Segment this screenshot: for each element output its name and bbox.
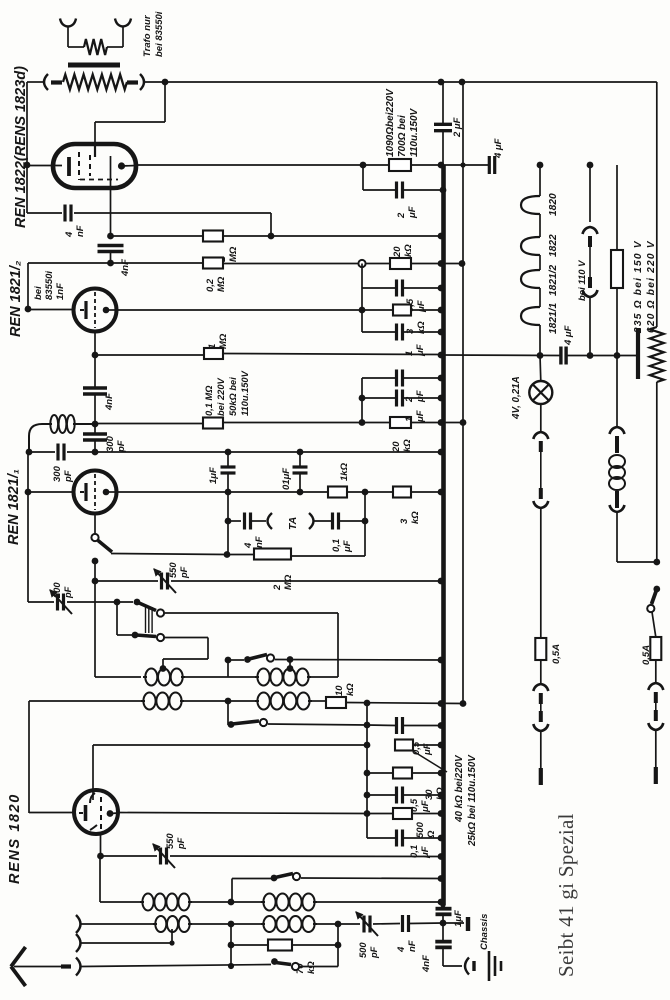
- tube REN1822 envelope: [53, 144, 136, 188]
- node: [460, 700, 467, 707]
- capacitor 1uF: [395, 324, 398, 341]
- wire: [122, 165, 137, 168]
- svg-text:2: 2: [272, 584, 283, 591]
- node: [438, 770, 445, 777]
- svg-text:700Ω bei: 700Ω bei: [397, 115, 408, 157]
- wire: [223, 422, 441, 424]
- svg-text:2: 2: [396, 212, 407, 219]
- switch S2 lever: [136, 635, 156, 637]
- svg-text:μF: μF: [415, 410, 426, 423]
- wire: [232, 878, 271, 880]
- ground jack arc: [465, 958, 469, 975]
- node: [438, 449, 445, 456]
- wire: [117, 602, 132, 635]
- label 20 k: [392, 244, 414, 258]
- loudspeaker magnet bar: [68, 63, 120, 68]
- node: [438, 853, 445, 860]
- node: [438, 722, 445, 729]
- node: [614, 352, 621, 359]
- wire: [100, 833, 102, 856]
- capacitor 0.1uF b: [395, 830, 398, 847]
- wire: [403, 794, 441, 796]
- wire: [190, 923, 261, 925]
- switch S2b pivot: [244, 656, 251, 663]
- svg-text:μF: μF: [407, 206, 418, 219]
- resistor 1 Mohm: [203, 231, 223, 242]
- capacitor 4uF top: [488, 156, 491, 174]
- svg-text:2 μF: 2 μF: [452, 117, 463, 138]
- node: [587, 162, 594, 169]
- svg-text:MΩ: MΩ: [283, 574, 294, 590]
- node: [438, 307, 445, 314]
- svg-text:1nF: 1nF: [55, 283, 66, 300]
- wire: [82, 929, 173, 943]
- wire: [403, 397, 441, 399]
- loudspeaker voice coil (zigzag): [84, 39, 107, 55]
- label 3 k: [405, 321, 427, 334]
- svg-text:200: 200: [52, 582, 62, 599]
- bias rail: [462, 82, 464, 704]
- wire: [227, 701, 229, 725]
- loudspeaker jack hook right: [115, 19, 131, 27]
- tube REN1822 anode lead: [94, 144, 96, 157]
- svg-text:1090Ωbei220V: 1090Ωbei220V: [385, 88, 396, 157]
- svg-text:110u.150V: 110u.150V: [240, 370, 250, 416]
- switch mains contact: [647, 605, 654, 612]
- wire: [403, 331, 441, 333]
- terminal: [358, 260, 365, 267]
- svg-text:REN 1822(RENS 1823d): REN 1822(RENS 1823d): [13, 66, 29, 228]
- wire grid line y423: [95, 423, 203, 425]
- node: [335, 921, 342, 928]
- capacitor 4nF coupling: [83, 386, 107, 389]
- svg-text:μF: μF: [415, 390, 426, 403]
- label 1 M: [217, 246, 239, 262]
- wire: [337, 924, 339, 945]
- svg-text:40 kΩ bei220V: 40 kΩ bei220V: [454, 754, 465, 823]
- wire: [367, 794, 396, 796]
- svg-text:4: 4: [64, 231, 75, 238]
- svg-text:pF: pF: [116, 440, 127, 453]
- wire: [223, 263, 358, 265]
- node: [460, 419, 467, 426]
- node: [335, 942, 342, 949]
- choke coil: [609, 455, 625, 490]
- node: [438, 835, 445, 842]
- label 4 nF: [64, 225, 86, 238]
- label 550pF b: [165, 833, 186, 850]
- label 0,5 uF: [405, 298, 427, 313]
- svg-text:kΩ: kΩ: [402, 439, 413, 452]
- speaker plug connector: [533, 432, 548, 439]
- svg-text:20: 20: [392, 246, 403, 258]
- node: [92, 352, 99, 359]
- wire: [373, 923, 400, 926]
- node: [438, 875, 445, 882]
- wire: [95, 580, 158, 582]
- tube RENS1820 anode dot: [107, 810, 114, 817]
- wire: [228, 520, 241, 522]
- capacitor 2uF b: [395, 182, 398, 199]
- svg-text:500: 500: [358, 942, 368, 958]
- ground jack dash: [472, 961, 475, 971]
- label 1090 multi: [385, 88, 420, 157]
- capacitor 550pF b: [159, 848, 162, 865]
- svg-text:25kΩ bei 110u.150V: 25kΩ bei 110u.150V: [467, 754, 478, 847]
- node: [653, 559, 660, 566]
- jack antenna 2: [76, 934, 81, 952]
- tube REN1821/1 anode dot: [103, 489, 110, 496]
- node: [364, 770, 371, 777]
- svg-text:μF: μF: [420, 800, 431, 813]
- wire to mains section: [462, 81, 657, 83]
- coil L3a: [142, 894, 153, 911]
- wire: [656, 82, 658, 327]
- node: [438, 352, 445, 359]
- node: [438, 700, 445, 707]
- mains plug connector left: [533, 684, 548, 691]
- wire: [347, 491, 393, 493]
- wire: [165, 612, 338, 614]
- switch S2 pivot: [132, 632, 139, 639]
- wire: [346, 703, 463, 704]
- node: [25, 489, 32, 496]
- wire: [411, 263, 462, 265]
- switch S2b contact: [267, 654, 274, 661]
- coil L3b: [263, 894, 275, 911]
- wire: [82, 965, 272, 967]
- svg-text:pF: pF: [179, 566, 189, 579]
- wire: [409, 922, 443, 925]
- svg-text:500: 500: [415, 821, 426, 838]
- resistor 500ohm: [393, 808, 412, 819]
- wire: [301, 877, 441, 880]
- switch S4 lever: [275, 874, 293, 878]
- node: [359, 307, 366, 314]
- wire: [413, 744, 441, 746]
- switch S1 pivot: [134, 599, 141, 606]
- svg-text:4 μF: 4 μF: [563, 325, 574, 346]
- tube REN1822 inner grid dashed: [78, 152, 80, 180]
- svg-text:MΩ: MΩ: [218, 333, 229, 349]
- wire: [540, 508, 542, 638]
- node: [362, 518, 369, 525]
- svg-text:μF: μF: [342, 540, 353, 553]
- tube REN1822 inner screen dashed: [80, 155, 118, 180]
- capacitor 0.1uF dec: [293, 452, 308, 492]
- coil L2a: [143, 693, 155, 710]
- node: [225, 489, 232, 496]
- svg-text:REN 1821/₁: REN 1821/₁: [6, 469, 22, 545]
- wire: [617, 512, 657, 562]
- svg-text:nF: nF: [407, 940, 418, 952]
- switch S3 pivot: [228, 721, 235, 728]
- svg-text:REN 1821/₂: REN 1821/₂: [8, 260, 24, 337]
- trimmer arrow: [154, 569, 176, 593]
- wire: [443, 947, 462, 966]
- wire: [616, 288, 618, 356]
- wire: [655, 730, 657, 767]
- svg-text:kΩ: kΩ: [410, 511, 421, 524]
- capacitor 0.5uF b: [395, 717, 398, 734]
- svg-text:bei 220V: bei 220V: [216, 377, 226, 416]
- node: [440, 187, 447, 194]
- resistor 30k: [393, 768, 412, 779]
- svg-text:4: 4: [243, 542, 254, 549]
- wire: [362, 331, 396, 333]
- svg-text:4: 4: [396, 946, 407, 953]
- wire: [94, 514, 96, 534]
- node: [364, 810, 371, 817]
- svg-text:0,1: 0,1: [331, 539, 342, 552]
- label Trafo nur bei 83550i: [142, 11, 165, 57]
- fuse 0.5A right: [650, 637, 661, 660]
- svg-text:110u.150V: 110u.150V: [409, 107, 420, 157]
- svg-text:235 Ω bei 150 V: 235 Ω bei 150 V: [633, 240, 644, 334]
- wire: [95, 82, 165, 144]
- tube REN1821/1 grid dashed: [94, 474, 96, 510]
- resistor 10k: [326, 697, 346, 708]
- node: [26, 449, 33, 456]
- node: [362, 489, 369, 496]
- trimmer arrow b: [153, 844, 175, 868]
- node: [438, 489, 445, 496]
- wire: [29, 700, 141, 702]
- label 4nF TA: [243, 536, 265, 549]
- capacitor 4nF cathode: [98, 244, 124, 247]
- tube REN1821/2 grid dashed: [94, 292, 96, 328]
- svg-text:bei: bei: [33, 286, 44, 300]
- wire: [275, 659, 441, 662]
- wire: [362, 377, 396, 379]
- wire hv line: [223, 354, 441, 355]
- resistor 70k: [268, 940, 292, 951]
- wire: [228, 659, 244, 661]
- tube RENS1820 cathode bar: [79, 805, 86, 821]
- wire left rail: [26, 82, 28, 213]
- wire: [291, 492, 365, 556]
- svg-text:bei 83550i: bei 83550i: [154, 11, 165, 57]
- resistor 3k b: [393, 487, 411, 498]
- svg-text:01μF: 01μF: [281, 468, 292, 490]
- chassis bar: [466, 917, 470, 931]
- resistor 235/620: [611, 250, 623, 288]
- wire: [361, 264, 363, 333]
- resistor 20k: [390, 258, 411, 269]
- transformer lead dash left: [51, 80, 62, 84]
- wire speaker feed: [165, 81, 441, 83]
- node: [162, 79, 169, 86]
- trimmer arrow: [50, 590, 72, 614]
- capacitor 4nF TA: [243, 513, 246, 530]
- svg-text:1821/1: 1821/1: [548, 303, 559, 334]
- lamp 4V 0.21A: [529, 381, 552, 404]
- svg-text:1: 1: [404, 417, 415, 422]
- node: [359, 419, 366, 426]
- node: [364, 792, 371, 799]
- svg-text:1821/2: 1821/2: [548, 265, 559, 296]
- label 1 M b: [207, 333, 229, 349]
- label 235 multi: [633, 240, 657, 334]
- wire: [92, 745, 94, 800]
- wire: [567, 355, 637, 357]
- node: [438, 375, 445, 382]
- svg-text:RENS 1820: RENS 1820: [7, 793, 23, 884]
- capacitor 1uF dec: [221, 452, 236, 492]
- tube RENS1820 envelope: [74, 790, 118, 834]
- node: [297, 449, 304, 456]
- label 20k b: [391, 439, 413, 453]
- node: [359, 395, 366, 402]
- wire: [14, 966, 61, 968]
- label 05uF b: [411, 741, 433, 756]
- wire: [82, 923, 154, 925]
- wire: [231, 944, 268, 946]
- label 200pF: [52, 582, 73, 599]
- capacitor 0.1uF TA: [331, 513, 334, 530]
- svg-text:MΩ: MΩ: [216, 276, 227, 292]
- svg-text:pF: pF: [176, 837, 186, 850]
- svg-text:kΩ: kΩ: [306, 961, 317, 974]
- jack TA left: [268, 513, 273, 529]
- node: [438, 285, 445, 292]
- switch S5 pivot: [271, 958, 278, 965]
- node: [92, 578, 99, 585]
- svg-text:4nF: 4nF: [104, 393, 115, 411]
- wire: [403, 837, 441, 839]
- node: [107, 233, 114, 240]
- wire: [655, 660, 657, 683]
- svg-text:620 Ω bei 220 V: 620 Ω bei 220 V: [646, 240, 657, 333]
- svg-text:1822: 1822: [548, 234, 559, 257]
- tube REN1821/2 envelope: [74, 289, 117, 332]
- svg-text:0,5A: 0,5A: [551, 644, 562, 664]
- node: [438, 329, 445, 336]
- wire: [339, 520, 365, 522]
- wire plate line: [136, 164, 488, 166]
- wire: [28, 262, 203, 264]
- transformer lead dash right: [127, 80, 138, 84]
- link connector bei110V: [583, 227, 598, 234]
- capacitor 2uF top: [434, 123, 452, 126]
- resistor 1090: [389, 159, 411, 171]
- switch lever: [98, 541, 112, 553]
- svg-text:4nF: 4nF: [120, 259, 131, 277]
- node: [587, 352, 594, 359]
- wire: [361, 378, 363, 423]
- wire: [412, 772, 441, 774]
- choke plug top: [610, 427, 625, 453]
- svg-text:4V, 0,21A: 4V, 0,21A: [511, 376, 522, 420]
- wire left rail: [27, 263, 29, 309]
- node: [438, 260, 445, 267]
- tube REN1822 grid bar: [67, 157, 71, 176]
- svg-text:3: 3: [405, 328, 416, 334]
- wire: [111, 235, 204, 237]
- wire: [190, 901, 261, 903]
- wire: [100, 856, 140, 902]
- wire: [106, 491, 116, 493]
- capacitor 4nF bus: [435, 940, 451, 944]
- label 30k: [424, 787, 446, 800]
- HT bus thick: [441, 165, 446, 905]
- selector bar: [636, 328, 640, 379]
- resistor 0.1 Mohm: [203, 418, 223, 429]
- capacitor 200pF var: [56, 594, 59, 611]
- jack antenna 1: [76, 915, 81, 933]
- wire: [540, 731, 542, 768]
- resistor 20k b: [390, 417, 411, 428]
- svg-text:1μF: 1μF: [453, 910, 464, 927]
- fuse 0.5A left: [535, 638, 546, 660]
- wire: [589, 297, 591, 356]
- node: [228, 942, 235, 949]
- wire cathode: [110, 156, 112, 236]
- wire: [118, 813, 367, 814]
- capacitor 1uF b: [395, 390, 398, 407]
- svg-text:50kΩ bei: 50kΩ bei: [228, 377, 238, 416]
- node: [364, 722, 371, 729]
- wire: [367, 837, 396, 839]
- label 550pF a: [168, 562, 189, 579]
- wire: [95, 354, 204, 356]
- resistor 1 Mohm b: [204, 348, 223, 359]
- svg-text:300: 300: [52, 465, 63, 482]
- node: [225, 698, 232, 705]
- svg-text:2: 2: [404, 396, 415, 403]
- node: [438, 79, 445, 86]
- wire: [412, 813, 441, 815]
- switch S3 contact: [260, 719, 267, 726]
- wire: [74, 213, 271, 236]
- node: [228, 921, 235, 928]
- heater filaments chain: [521, 196, 540, 325]
- ground symbol: [489, 951, 501, 981]
- capacitor 4nF e: [401, 915, 404, 932]
- wire: [228, 676, 255, 678]
- wire: [29, 812, 74, 814]
- label 2uF: [404, 390, 426, 403]
- tube REN1821/1 grid bar: [80, 483, 86, 501]
- resistor 40k: [395, 740, 413, 751]
- wire left rail: [27, 452, 29, 602]
- label 3k b: [399, 511, 421, 524]
- node: [297, 489, 304, 496]
- wire: [110, 812, 118, 815]
- wire: [411, 491, 441, 493]
- node: [268, 233, 275, 240]
- node: [440, 920, 447, 927]
- wire: [230, 924, 232, 966]
- wire: [94, 561, 96, 677]
- node: [24, 162, 31, 169]
- switch S3 lever: [232, 721, 259, 724]
- svg-text:kΩ: kΩ: [403, 244, 414, 257]
- wire: [227, 554, 254, 556]
- wire: [403, 725, 441, 727]
- svg-text:TA: TA: [287, 517, 299, 530]
- pointer line: [413, 751, 447, 772]
- node: [438, 395, 445, 402]
- tube REN1821/1 envelope: [74, 471, 117, 514]
- choke plug bottom: [610, 491, 625, 512]
- wire: [183, 660, 228, 677]
- node: [438, 792, 445, 799]
- wire: [362, 397, 396, 399]
- wire: [289, 660, 291, 669]
- wire: [656, 382, 658, 562]
- node: [169, 940, 174, 945]
